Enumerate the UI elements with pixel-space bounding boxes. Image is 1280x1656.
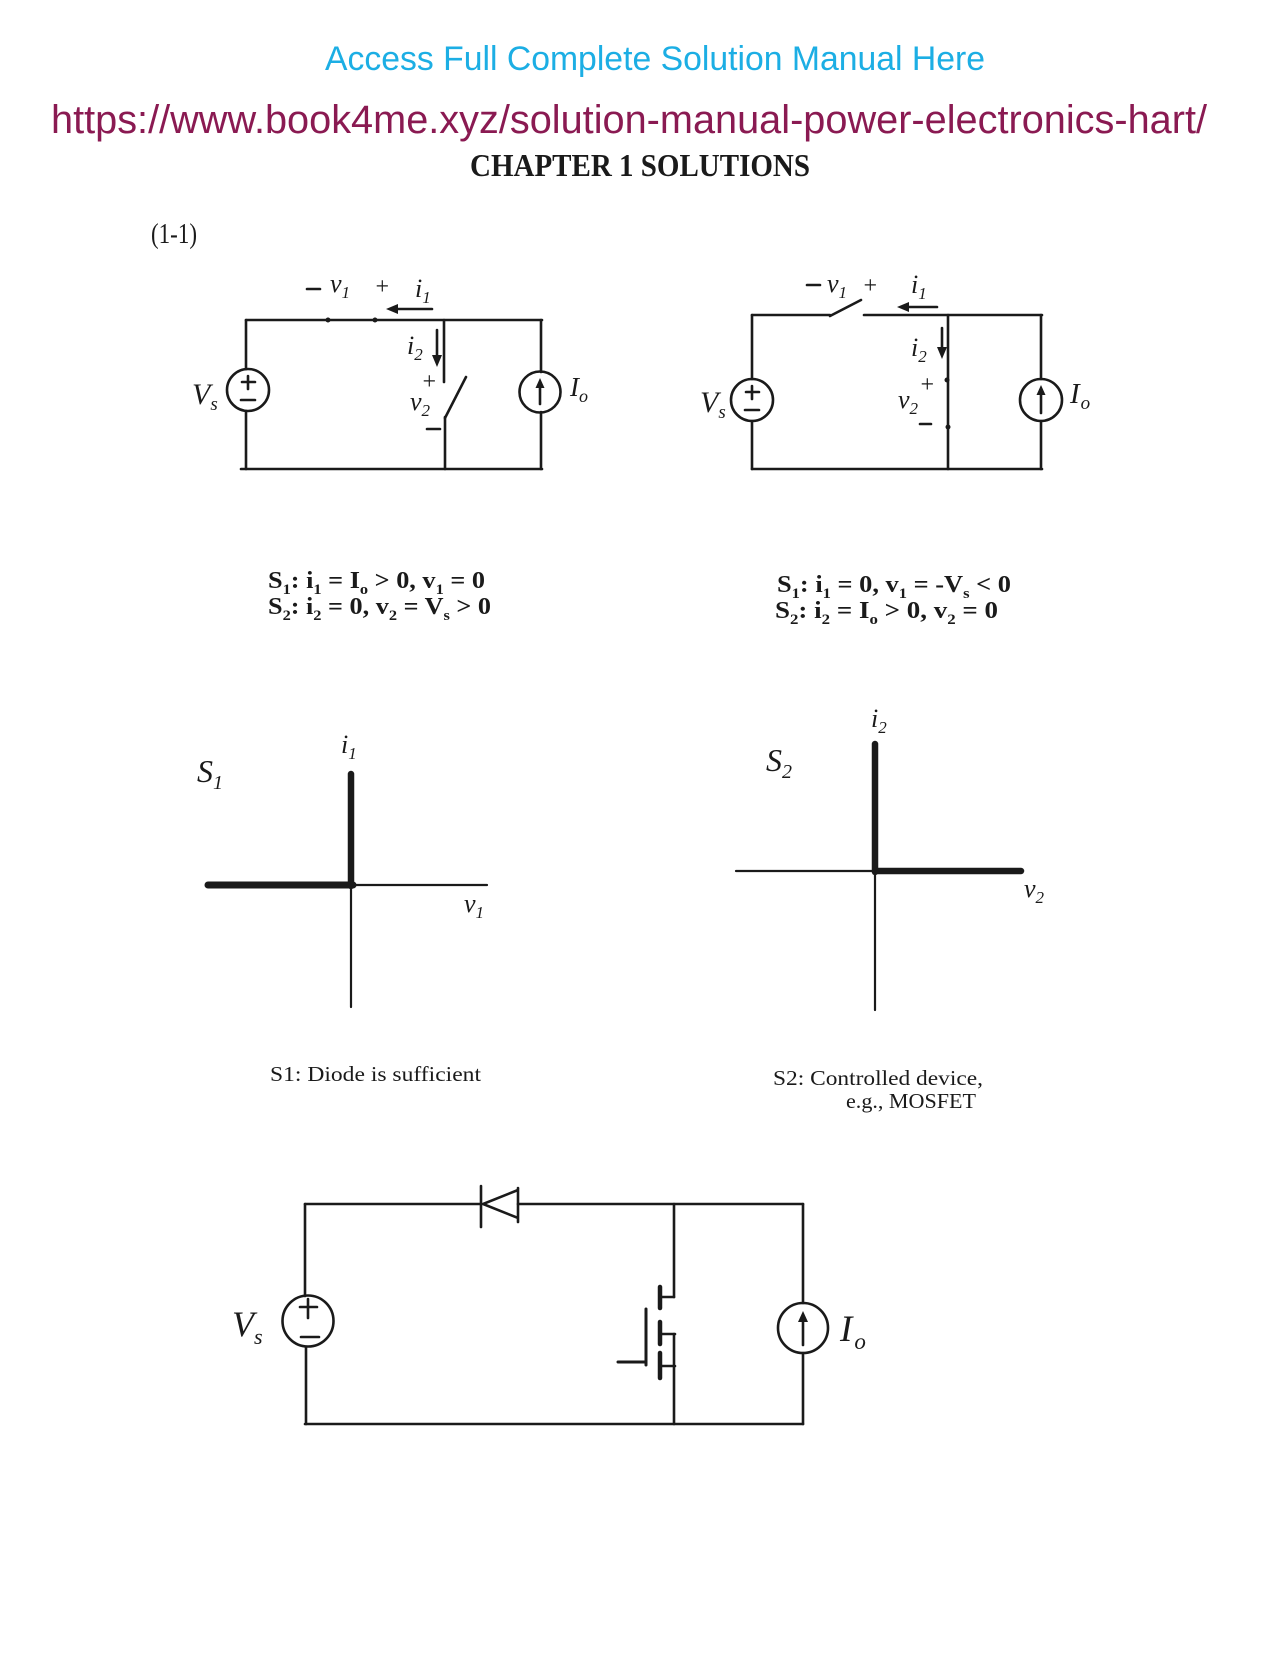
diode D1 cathode bar <box>480 1186 483 1227</box>
wire: top horizontal right of diode (bottom circuit) <box>518 1203 803 1206</box>
label minus of v2 (right circuit) <box>920 423 931 426</box>
MOSFET Q1 source lead <box>660 1365 675 1368</box>
svg-text:S1: Diode is sufficient: S1: Diode is sufficient <box>270 1062 481 1086</box>
svg-text:+: + <box>421 369 437 395</box>
MOSFET Q1 body lead <box>660 1333 675 1336</box>
svg-text:S2: S2 <box>766 742 792 783</box>
svg-text:CHAPTER 1 SOLUTIONS: CHAPTER 1 SOLUTIONS <box>470 147 810 183</box>
wire: right vertical upper (bottom circuit) <box>802 1204 805 1303</box>
arrow i1 (right circuit) <box>904 306 937 309</box>
S2 graph: v2 axis bold segment <box>875 868 1021 875</box>
svg-text:i1: i1 <box>341 730 357 763</box>
svg-text:v1: v1 <box>464 889 484 922</box>
svg-text:Vs: Vs <box>232 1304 263 1349</box>
junction dot upper (right circuit) <box>945 378 950 383</box>
wire: left vertical upper (right circuit) <box>751 315 754 379</box>
label minus of v1 (left circuit) <box>307 288 320 291</box>
S1 graph: i1 axis bold segment <box>348 774 355 886</box>
wire: left vertical upper (left circuit) <box>245 320 248 369</box>
svg-text:v2: v2 <box>1024 874 1045 907</box>
S1 graph: i1 axis thin segment <box>350 886 352 1007</box>
svg-text:S1: S1 <box>197 753 223 794</box>
MOSFET Q1 drain lead <box>661 1296 674 1299</box>
svg-text:Access Full Complete Solution: Access Full Complete Solution Manual Her… <box>325 40 985 78</box>
svg-text:Io: Io <box>569 372 588 406</box>
MOSFET Q1 drain wire <box>673 1204 676 1297</box>
wire: top horizontal left segment (right circuit) <box>752 314 830 317</box>
svg-text:+: + <box>374 274 390 300</box>
arrow i1 (left circuit) <box>393 308 432 311</box>
wire: right vertical lower (left circuit) <box>540 412 543 469</box>
svg-text:Vs: Vs <box>192 378 218 415</box>
svg-text:S2: i2 = 0, v2 = Vs > 0: S2: i2 = 0, v2 = Vs > 0 <box>268 594 491 624</box>
svg-text:i1: i1 <box>415 274 431 307</box>
MOSFET Q1 gate lead <box>618 1361 646 1364</box>
wire: bottom horizontal (left circuit) <box>241 468 542 471</box>
S1 graph: v1 axis thin segment <box>353 884 487 886</box>
S2 graph: i2 axis thin segment <box>874 872 876 1010</box>
MOSFET Q1 source wire <box>673 1334 676 1424</box>
MOSFET Q1 drain channel bar <box>658 1287 663 1308</box>
svg-text:S2: Controlled device,: S2: Controlled device, <box>773 1066 983 1090</box>
switch S2 branch: upper stub <box>443 320 446 382</box>
wire: left vertical lower (bottom circuit) <box>305 1347 308 1424</box>
svg-text:i1: i1 <box>911 270 927 303</box>
current source Io (bottom circuit) <box>778 1303 828 1353</box>
current source Io (right circuit) <box>1020 379 1062 421</box>
svg-text:https://www.book4me.xyz/soluti: https://www.book4me.xyz/solution-manual-… <box>51 98 1208 142</box>
wire: top horizontal left of diode (bottom circuit) <box>305 1203 480 1206</box>
svg-text:S2: i2 = Io > 0, v2 = 0: S2: i2 = Io > 0, v2 = 0 <box>775 598 998 628</box>
label minus of v1 (right circuit) <box>807 284 820 287</box>
svg-text:Vs: Vs <box>700 386 726 423</box>
svg-text:e.g., MOSFET: e.g., MOSFET <box>846 1089 976 1113</box>
MOSFET Q1 body channel bar <box>658 1322 663 1344</box>
arrow i2 (left circuit) <box>436 330 439 360</box>
wire: bottom horizontal (bottom circuit) <box>305 1423 803 1426</box>
MOSFET Q1 gate bar <box>645 1309 648 1365</box>
svg-text:+: + <box>919 372 935 398</box>
wire: top horizontal (left circuit) <box>246 319 542 322</box>
wire: top horizontal right segment (right circuit) <box>864 314 1042 317</box>
svg-text:Io: Io <box>839 1309 866 1354</box>
svg-text:+: + <box>862 273 878 299</box>
wire: left vertical upper (bottom circuit) <box>304 1204 307 1296</box>
svg-text:v1: v1 <box>827 269 847 302</box>
wire: right vertical lower (bottom circuit) <box>802 1353 805 1424</box>
node dot b <box>373 318 378 323</box>
S1 graph: v1 axis bold segment <box>208 882 353 889</box>
S2 graph: v2 axis thin segment <box>736 870 875 872</box>
junction dot lower (right circuit) <box>946 425 951 430</box>
wire: left vertical lower (left circuit) <box>245 411 248 469</box>
svg-text:v2: v2 <box>898 385 919 418</box>
label minus of v2 (left circuit) <box>427 428 440 431</box>
svg-text:Io: Io <box>1069 378 1090 414</box>
svg-text:(1-1): (1-1) <box>151 219 197 250</box>
wire: left vertical lower (right circuit) <box>751 421 754 469</box>
voltage source Vs (right circuit) <box>731 379 773 421</box>
wire: bottom horizontal (right circuit) <box>752 468 1042 471</box>
wire: right vertical lower (right circuit) <box>1040 421 1043 469</box>
wire: right vertical upper (left circuit) <box>540 320 543 372</box>
svg-text:v1: v1 <box>330 269 350 302</box>
switch S2 blade <box>445 377 466 418</box>
switch S1 blade (open, in top wire) <box>830 300 861 316</box>
current source Io (left circuit) <box>520 372 561 413</box>
wire: right vertical upper (right circuit) <box>1040 315 1043 379</box>
voltage source Vs (bottom circuit) <box>283 1296 334 1347</box>
diode D1 triangle <box>483 1188 518 1222</box>
voltage source Vs (left circuit) <box>227 369 269 411</box>
S2 graph: i2 axis bold segment <box>872 744 879 872</box>
svg-text:i2: i2 <box>407 331 423 364</box>
MOSFET Q1 source channel bar <box>658 1353 663 1378</box>
wire: middle vertical branch (right circuit) <box>947 315 950 469</box>
node dot a <box>326 318 331 323</box>
svg-text:i2: i2 <box>871 704 887 737</box>
arrow i2 (right circuit) <box>941 328 944 352</box>
svg-text:i2: i2 <box>911 333 927 366</box>
switch S2 branch: lower wire <box>444 417 447 469</box>
